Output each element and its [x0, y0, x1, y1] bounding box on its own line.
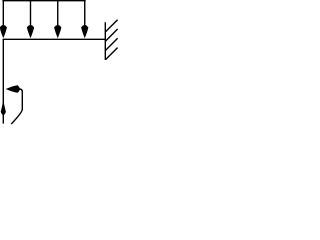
- load arrow shaft 2: [30, 0, 32, 30]
- load arrowhead 3: [54, 25, 61, 39]
- load arrowhead 4: [81, 25, 88, 39]
- moment arrowhead (left): [6, 85, 21, 93]
- moment arrow curve: [11, 89, 22, 124]
- distributed load top line: [2, 0, 85, 2]
- left column: [2, 39, 4, 123]
- load arrow shaft 1: [2, 0, 4, 30]
- beam: [3, 38, 106, 40]
- load arrowhead 1: [0, 25, 7, 39]
- wall hatch 3: [105, 38, 117, 50]
- wall hatch 4: [105, 48, 117, 60]
- load arrow shaft 4: [84, 0, 86, 30]
- wall hatch 1: [105, 20, 117, 32]
- reaction force arrowhead (up): [1, 100, 6, 116]
- wall support line: [104, 22, 106, 60]
- wall hatch 2: [105, 29, 117, 41]
- load arrowhead 2: [27, 25, 34, 39]
- load arrow shaft 3: [57, 0, 59, 30]
